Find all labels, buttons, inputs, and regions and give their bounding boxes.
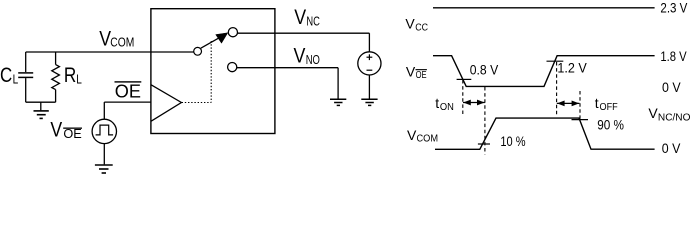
- svg-text:V: V: [50, 118, 62, 141]
- svg-text:10 %: 10 %: [500, 133, 525, 149]
- dashed line D2: [484, 87, 486, 155]
- svg-text:OFF: OFF: [600, 102, 618, 113]
- svg-text:V: V: [648, 105, 658, 121]
- arrow tOFF: [557, 101, 580, 107]
- label 1.8 V: [660, 48, 687, 64]
- label VOE-bar circuit: [50, 118, 82, 141]
- label OE-bar: [115, 81, 142, 102]
- arrow tON: [463, 100, 485, 106]
- label 2.3 V: [660, 0, 688, 15]
- svg-text:L: L: [13, 73, 19, 87]
- dashed line D1: [462, 80, 464, 115]
- ground G1: [34, 102, 49, 118]
- label VOE-bar timing: [406, 64, 427, 82]
- svg-text:R: R: [64, 64, 76, 87]
- svg-text:OE: OE: [416, 70, 427, 81]
- label VCOM circuit: [99, 27, 134, 50]
- contact NO circle: [228, 63, 237, 72]
- svg-text:NO: NO: [306, 52, 320, 67]
- ground G4: [361, 99, 377, 105]
- label VNO: [294, 45, 320, 68]
- svg-text:OE: OE: [115, 82, 141, 102]
- label VNC/NO: [648, 105, 690, 123]
- contact NC circle: [228, 28, 237, 37]
- label tON: [435, 95, 454, 113]
- dotted control line: [182, 41, 212, 103]
- buffer U2 triangle: [151, 85, 182, 122]
- label RL: [64, 64, 82, 87]
- switch pole contact: [194, 47, 202, 55]
- svg-text:0 V: 0 V: [662, 140, 681, 156]
- svg-text:t: t: [595, 95, 599, 111]
- label 0 V upper: [662, 79, 681, 95]
- svg-text:1.8 V: 1.8 V: [660, 48, 687, 64]
- wire source bottom: [368, 75, 370, 99]
- svg-text:V: V: [407, 127, 417, 143]
- capacitor C1: [18, 52, 33, 102]
- svg-text:1.2 V: 1.2 V: [557, 60, 587, 76]
- tick 90% crossing: [572, 119, 589, 121]
- svg-text:t: t: [435, 95, 439, 111]
- VCOM waveform: [435, 118, 655, 149]
- wire V_COM horizontal: [26, 51, 194, 53]
- switch blade with arrow: [201, 33, 228, 48]
- ground G2: [95, 165, 113, 173]
- svg-text:COM: COM: [110, 36, 134, 50]
- tick 1.2V crossing: [547, 60, 564, 62]
- wire pulse source top: [103, 102, 105, 119]
- svg-text:0 V: 0 V: [662, 79, 681, 95]
- dashed line D4: [579, 91, 581, 119]
- switch box U1: [151, 9, 275, 134]
- wire RC bottom: [26, 101, 56, 103]
- svg-text:V: V: [405, 16, 415, 32]
- label 10 %: [500, 133, 525, 149]
- svg-text:COM: COM: [417, 134, 439, 145]
- ground G3: [330, 99, 346, 105]
- svg-text:L: L: [76, 73, 82, 87]
- svg-text:NC/NO: NC/NO: [658, 112, 691, 123]
- pulse source V1: [92, 119, 116, 143]
- wire NC output: [238, 33, 370, 52]
- label VNC: [294, 6, 320, 29]
- label 90 %: [597, 117, 624, 133]
- svg-text:0.8 V: 0.8 V: [470, 61, 499, 77]
- svg-text:V: V: [406, 64, 416, 80]
- svg-text:90 %: 90 %: [597, 117, 624, 133]
- label VCC timing: [405, 16, 428, 34]
- svg-text:C: C: [0, 64, 12, 87]
- voltage source V2: [358, 52, 381, 75]
- svg-text:NC: NC: [306, 13, 320, 28]
- svg-text:ON: ON: [440, 102, 454, 113]
- svg-text:V: V: [294, 6, 306, 29]
- dashed line D3: [556, 62, 558, 115]
- tick 0.8V crossing: [457, 78, 472, 80]
- label tOFF: [595, 95, 618, 113]
- svg-text:2.3 V: 2.3 V: [660, 0, 688, 15]
- wire pulse source bottom: [103, 144, 105, 165]
- resistor RL: [52, 52, 60, 102]
- label VCOM timing: [407, 127, 438, 145]
- wire NO output: [237, 68, 338, 99]
- VOE waveform: [433, 56, 655, 87]
- label 0.8 V: [470, 61, 499, 77]
- label 0 V lower: [662, 140, 681, 156]
- svg-text:CC: CC: [415, 23, 428, 34]
- wire OE input: [104, 101, 151, 103]
- label CL: [0, 64, 18, 87]
- svg-text:V: V: [294, 45, 306, 68]
- tick 10% crossing: [478, 143, 490, 145]
- VCC waveform line: [433, 7, 655, 9]
- label 1.2 V: [557, 60, 587, 76]
